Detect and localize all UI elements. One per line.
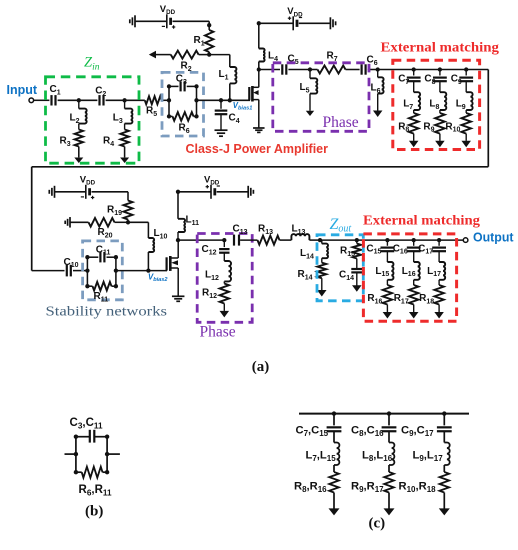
capacitor C_7 <box>398 70 420 86</box>
inductor L14 <box>300 240 328 260</box>
resistor R6 <box>173 112 194 135</box>
ground under Q2 <box>172 296 185 301</box>
capacitor C6 <box>362 55 378 75</box>
wire R15 node to output <box>357 239 464 241</box>
resistor R2 <box>171 51 199 73</box>
inductor L_7,L_15 (fig c) <box>306 431 340 465</box>
node L4 bottom <box>257 67 261 71</box>
wire R12 to ground <box>223 304 225 311</box>
ground branch 2 <box>435 141 445 148</box>
fig-b right stub <box>107 453 120 455</box>
transistor Q1 gate bar <box>248 87 250 100</box>
label VDD2 <box>287 6 303 18</box>
ground VDD2 (right) <box>330 17 335 29</box>
node L5 <box>308 67 312 71</box>
fig-b left vertical <box>75 437 77 473</box>
ground VDD4 (right) <box>248 186 253 198</box>
wire R_9 to ground <box>439 134 441 141</box>
box Zin (green dashed) <box>46 77 140 163</box>
wire R13 to L13 <box>280 239 292 241</box>
ground fig-c R_9,R_17 <box>384 508 395 515</box>
label Zin <box>84 55 100 73</box>
wire gnd to R20 <box>70 221 89 223</box>
wire L10 to main line <box>147 252 149 271</box>
wire R_8 to ground <box>413 134 415 141</box>
transistor Q2 channel <box>169 256 172 271</box>
svg-text:(c): (c) <box>369 515 386 531</box>
node R1 bottom <box>207 52 211 57</box>
label C3,C11 <box>70 417 103 431</box>
wire C14 to ground <box>356 272 358 286</box>
capacitor C_7,C_15 (fig c) <box>296 414 342 438</box>
wire node to C4 and gate <box>230 99 250 101</box>
capacitor C1 <box>50 84 61 106</box>
label (c) <box>369 515 386 531</box>
wire R_10,R_18 to ground (fig c) <box>443 493 445 509</box>
ground under Q1 <box>253 128 264 132</box>
wire RC2 top right <box>107 256 116 258</box>
label Phase 2 <box>200 324 236 341</box>
fig-b right vertical <box>106 437 108 473</box>
inductor L_9,L_17 (fig c) <box>413 431 450 465</box>
inductor L11 <box>178 192 199 240</box>
inductor L4 <box>259 49 278 63</box>
node fig-c C_8,C_16 <box>387 411 391 415</box>
capacitor C_9,C_17 (fig c) <box>401 414 452 438</box>
box stability network 2 (grey dashed) <box>83 241 123 300</box>
node branch C_17 <box>437 238 441 242</box>
fig-b top wires <box>76 436 107 438</box>
node fig-c C_7,C_15 <box>332 411 336 415</box>
node R15 <box>355 238 359 242</box>
ground VDD1 (left) <box>130 15 135 27</box>
svg-text:External matching: External matching <box>363 213 480 228</box>
transistor Q1 source stub <box>252 100 258 128</box>
node branch C_8 <box>438 67 442 71</box>
capacitor C_15 <box>366 240 394 256</box>
wire C13 to R13 <box>240 239 257 241</box>
wire C1 to node A <box>58 99 79 101</box>
node L6 <box>376 67 380 71</box>
node RC1 corners <box>167 84 199 118</box>
ground fig-c R_8,R_16 <box>329 508 340 515</box>
transistor Q1 drain stub <box>252 70 258 88</box>
ground branch2 1 <box>383 312 393 319</box>
inductor L13 <box>291 224 309 241</box>
wire drain node to C12 node <box>178 239 224 241</box>
wire node A to C2 <box>79 99 98 101</box>
resistor R12 <box>202 281 229 303</box>
inductor L_8 <box>429 81 446 111</box>
wire battery2 to ground <box>299 22 331 24</box>
wire RC2 top left <box>87 256 98 258</box>
wire interstage across <box>32 166 489 168</box>
wire R_17 to ground <box>413 305 415 313</box>
capacitor C13 <box>233 224 248 246</box>
wire C2 to node B <box>106 99 125 101</box>
ground branch 1 <box>409 141 419 148</box>
ground branch2 3 <box>434 312 444 319</box>
node branch C_16 <box>412 238 416 242</box>
capacitor C4 <box>215 100 240 125</box>
label Class-J Power Amplifier <box>186 142 329 156</box>
capacitor C3 <box>176 74 187 92</box>
wire RC1 to Vbias1 node <box>197 99 230 101</box>
node L11 bottom <box>176 238 180 242</box>
battery VDD1 <box>162 14 176 28</box>
wire R5 to RC network <box>162 99 169 101</box>
node fig-b corners <box>74 435 110 475</box>
inductor L10 <box>148 228 167 252</box>
svg-text:Stability networks: Stability networks <box>46 305 168 320</box>
node RC1 right <box>194 98 198 102</box>
resistor R_8,R_16 (fig c) <box>294 465 339 494</box>
wire RC2 right vertical <box>115 257 117 286</box>
box stability network 1 (grey dashed) <box>162 72 204 136</box>
fig-c top bus <box>299 413 469 415</box>
resistor R_16 <box>367 280 392 306</box>
resistor R_18 <box>419 280 444 306</box>
node C4 junction <box>219 98 223 102</box>
label External matching 2 <box>363 213 480 228</box>
resistor R_10,R_18 (fig c) <box>399 465 450 494</box>
inductor L1 <box>219 67 237 83</box>
wire R_9,R_17 to ground (fig c) <box>388 493 390 509</box>
wire R_16 to ground <box>386 305 388 313</box>
ground branch 3 <box>461 141 471 148</box>
wire R4 to ground <box>124 147 126 158</box>
resistor R_10 <box>445 110 471 134</box>
wire gnd to battery3 <box>55 191 86 193</box>
label Vbias2 <box>148 272 168 283</box>
resistor R13 <box>258 224 280 245</box>
capacitor C_8 <box>424 70 446 86</box>
ground under R14 <box>317 290 327 297</box>
node L14 <box>318 238 322 242</box>
wire R_8,R_16 to ground (fig c) <box>333 493 335 509</box>
capacitor C_8,C_16 (fig c) <box>351 414 396 438</box>
ground under L5 <box>306 111 314 116</box>
resistor R5 <box>145 96 162 118</box>
label Zout <box>330 216 352 235</box>
ground under L6 <box>373 111 383 118</box>
resistor R19 <box>107 201 133 220</box>
node Output terminal <box>463 238 468 243</box>
inductor L_9 <box>456 81 473 111</box>
resistor R14 <box>298 258 327 281</box>
node Vbias1 <box>228 98 232 102</box>
ground under C14 <box>352 285 362 292</box>
svg-text:Phase: Phase <box>200 324 236 341</box>
resistor R15 <box>340 240 361 258</box>
capacitor C11 <box>96 244 111 262</box>
node R1 top <box>207 23 211 27</box>
node branch C_7 <box>412 67 416 71</box>
node battery2 left <box>257 21 261 25</box>
svg-text:Phase: Phase <box>323 114 359 131</box>
wire node to L10 <box>128 222 148 238</box>
resistor R20 <box>89 218 115 239</box>
ground under R12 <box>220 311 230 318</box>
ground under C4 <box>215 130 228 136</box>
wire RC1 bottom left stub <box>169 115 197 117</box>
resistor R3 <box>60 130 84 148</box>
node branch C_15 <box>385 238 389 242</box>
transistor Q2 bulk arrow <box>171 260 178 265</box>
node fig-c C_9,C_17 <box>442 411 446 415</box>
wire interstage left down <box>31 167 33 271</box>
wire R14 to ground <box>321 278 323 290</box>
node C12 <box>222 238 226 242</box>
ground fig-c R_10,R_18 <box>439 508 450 515</box>
inductor L2 <box>70 100 87 129</box>
box external matching 2 (red dashed) <box>363 234 456 321</box>
ground branch2 2 <box>409 312 419 319</box>
wire C10 to RC2 <box>73 270 87 272</box>
ground VDD3 (left) <box>49 186 54 198</box>
svg-text:External matching: External matching <box>381 40 500 55</box>
wire drain up <box>258 23 260 69</box>
transistor Q1 channel <box>251 86 254 102</box>
label (b) <box>85 503 103 519</box>
resistor R7 <box>310 51 360 74</box>
wire arrow to R2 <box>156 54 171 56</box>
battery VDD2 <box>288 16 302 30</box>
node B <box>122 98 126 102</box>
resistor R6,R11 (fig b) <box>76 467 107 478</box>
wire RC1 top right <box>187 85 197 87</box>
ground R20 (left, side bars) <box>65 217 70 228</box>
label Vbias1 <box>233 101 253 112</box>
label Stability networks <box>46 305 168 320</box>
node RC2 corners <box>85 255 118 288</box>
wire C5 to L5 node <box>288 69 310 71</box>
ground under R4 <box>120 158 129 164</box>
node R19 bottom <box>126 220 130 224</box>
ground under R3 <box>74 158 83 164</box>
label (a) <box>252 359 269 375</box>
resistor R1 <box>194 30 214 52</box>
svg-text:Class-J Power Amplifier: Class-J Power Amplifier <box>186 142 329 156</box>
wire R_18 to ground <box>438 305 440 313</box>
label VDD1 <box>160 4 176 16</box>
node A <box>77 98 81 102</box>
inductor L_16 <box>402 251 420 280</box>
inductor L3 <box>113 100 133 129</box>
wire interstage down <box>487 70 489 167</box>
resistor R_8 <box>398 110 418 134</box>
svg-text:Input: Input <box>7 83 38 97</box>
wire gnd to battery1 <box>135 20 167 22</box>
svg-text:(b): (b) <box>85 503 103 519</box>
label Phase 1 <box>323 114 359 131</box>
inductor L5 <box>300 70 318 111</box>
wire RC1 left vertical <box>168 86 170 116</box>
wire C4 to ground <box>220 114 222 130</box>
wire node to battery4 <box>178 191 211 193</box>
battery VDD3 <box>81 185 95 199</box>
capacitor C_17 <box>418 240 446 256</box>
capacitor C3,C11 (fig b) <box>90 430 95 443</box>
node RC2 right <box>114 268 118 272</box>
wire battery4 to ground <box>217 191 249 193</box>
resistor R_9,R_17 (fig c) <box>351 465 394 494</box>
wire R2 to R1 bottom <box>199 54 210 56</box>
wire R_10 to ground <box>465 134 467 141</box>
wire RC2 left vertical <box>86 257 88 286</box>
battery VDD4 <box>206 185 220 199</box>
resistor R_17 <box>394 280 419 306</box>
resistor R_9 <box>423 110 444 134</box>
wire node to C5 <box>259 69 280 71</box>
label VDD3 <box>80 175 96 187</box>
capacitor C2 <box>95 86 106 106</box>
box Phase 2 (purple dashed) <box>197 234 252 323</box>
transistor Q2 source stub <box>170 268 178 296</box>
node L10 bottom <box>146 268 150 272</box>
capacitor C_9 <box>451 70 473 86</box>
capacitor C_16 <box>393 240 421 256</box>
node RC1 left <box>167 98 171 102</box>
svg-text:Output: Output <box>473 230 514 244</box>
inductor L_15 <box>375 251 393 280</box>
inductor L_17 <box>427 251 445 280</box>
node Input terminal <box>29 98 34 103</box>
wire battery3 to R19 <box>92 192 129 201</box>
wire R19 node <box>127 220 129 223</box>
wire L6 node to bus end <box>378 69 489 71</box>
wire C6 to L6 node <box>368 69 378 71</box>
box external matching 1 (red dashed) <box>393 60 480 149</box>
fig-b left stub <box>65 453 76 455</box>
wire node B to R5 <box>125 99 145 101</box>
wire battery1 to R1 <box>173 21 210 30</box>
inductor L_8,L_16 (fig c) <box>362 431 394 465</box>
wire RC1 top left <box>169 85 179 87</box>
inductor L_7 <box>403 81 420 111</box>
wire RC1 right vertical <box>196 86 198 116</box>
wire RC2 to gate <box>116 270 167 272</box>
box Phase 1 (purple dashed) <box>273 63 369 132</box>
capacitor C5 <box>282 54 298 75</box>
node battery4 left <box>176 190 180 194</box>
wire to C10 <box>32 270 65 272</box>
label R6,R11 <box>79 484 112 498</box>
label VDD4 <box>204 175 220 187</box>
label External matching 1 <box>381 40 500 55</box>
resistor R11 <box>93 282 112 304</box>
label Input <box>7 83 38 97</box>
capacitor C12 <box>202 240 230 256</box>
label Output <box>473 230 514 244</box>
transistor Q2 drain stub <box>170 240 178 258</box>
wire node to R15 node <box>320 239 357 241</box>
capacitor C14 <box>339 259 362 282</box>
node branch C_9 <box>464 67 468 71</box>
wire R1 bottom to L1 <box>209 55 230 67</box>
wire R20 to node <box>115 221 129 223</box>
wire input to C1 <box>34 99 50 101</box>
svg-text:(a): (a) <box>252 359 269 375</box>
ground arrow R2 (left) <box>149 51 156 59</box>
inductor L6 <box>371 70 384 112</box>
resistor R4 <box>103 130 129 148</box>
wire node to battery2 <box>259 22 293 24</box>
wire R3 to ground <box>78 147 80 158</box>
wire L13 to node <box>309 239 320 241</box>
transistor Q2 gate bar <box>166 257 168 270</box>
wire RC2 bottom stubs <box>87 285 116 287</box>
inductor L12 <box>205 253 231 282</box>
capacitor C10 <box>64 257 79 277</box>
node RC2 left <box>85 268 89 272</box>
transistor Q1 bulk arrow <box>253 90 258 95</box>
box Zout (cyan dashed) <box>317 235 363 301</box>
wire L1 to main line <box>229 84 231 101</box>
